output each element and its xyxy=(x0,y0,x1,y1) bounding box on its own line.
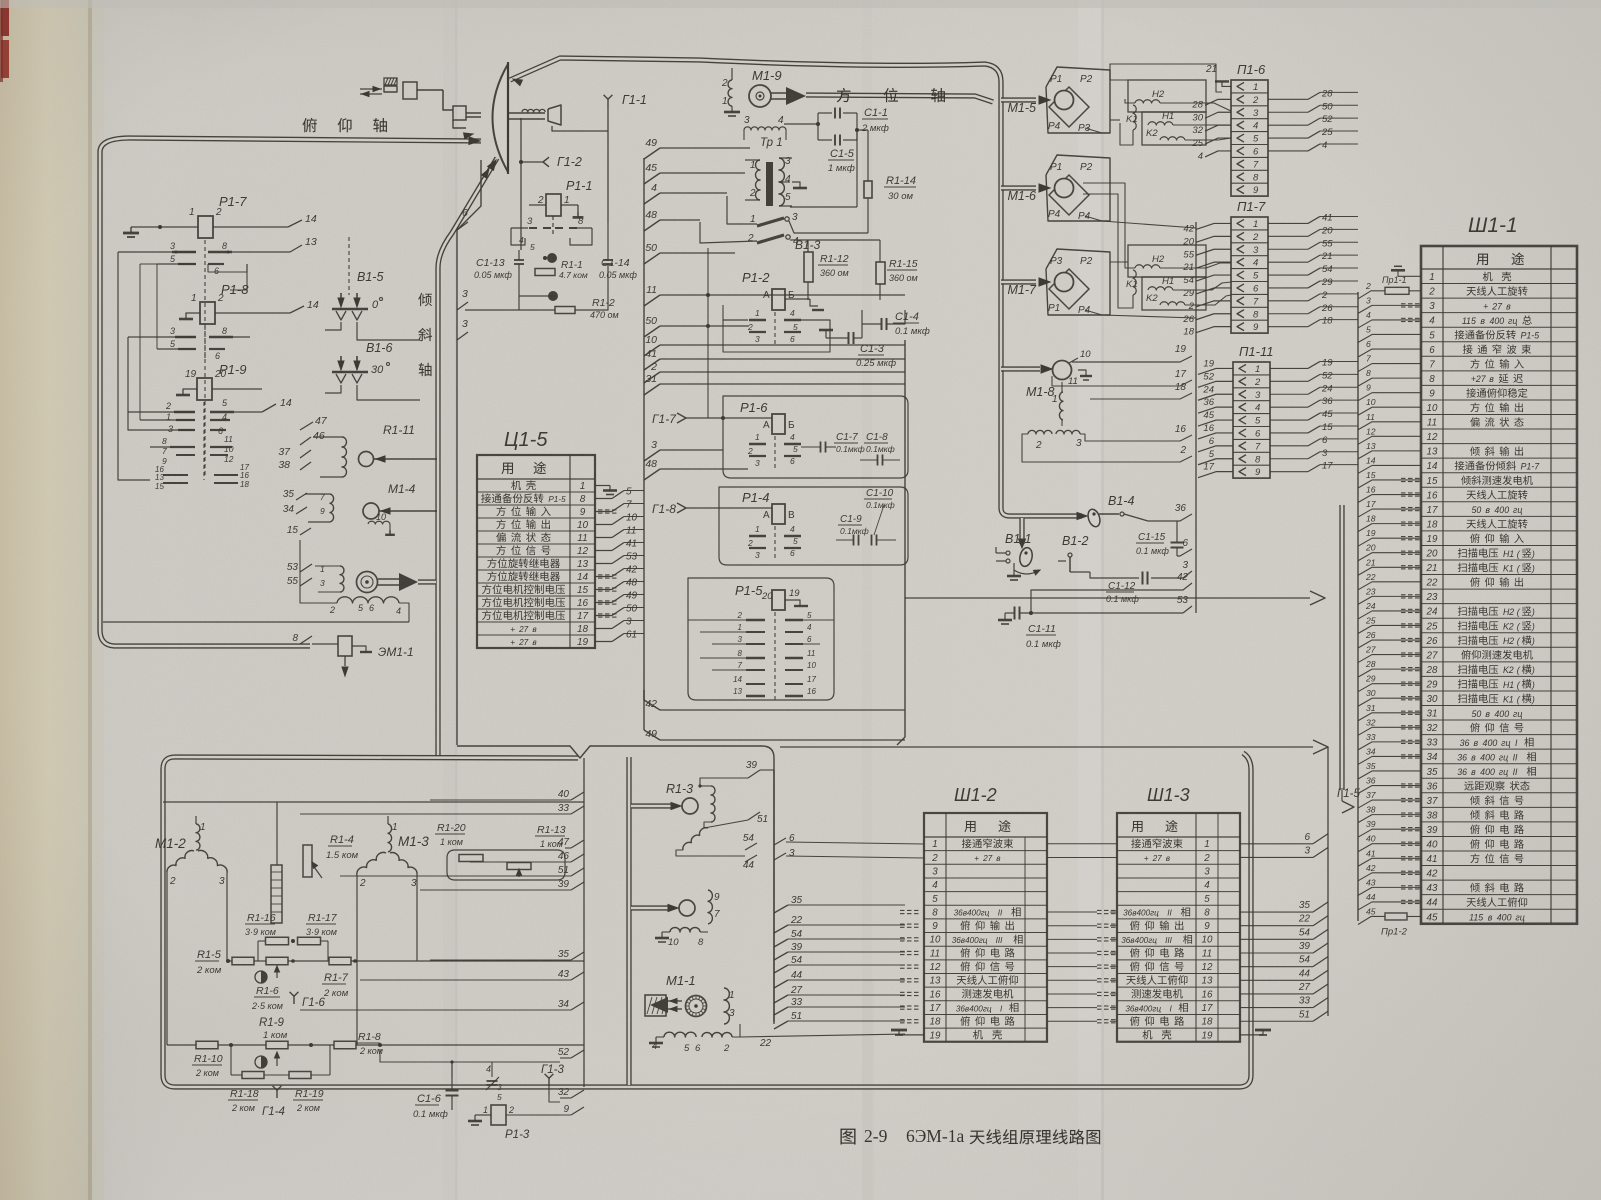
stub 41 xyxy=(644,359,660,370)
P1-8 contact rows xyxy=(204,326,206,360)
M1-1 bottom coils xyxy=(664,1032,696,1037)
ladder row 29 xyxy=(1358,684,1421,692)
ladder row 9 xyxy=(1358,393,1421,401)
ground top-left xyxy=(130,227,132,233)
P1-9 contact bank xyxy=(203,402,205,480)
gearbox shaft blocks xyxy=(384,86,397,92)
top boundary double line from dish to azimuth column xyxy=(510,58,1082,516)
wires top bottom-left xyxy=(163,801,584,803)
ladder row 13 xyxy=(1358,451,1421,459)
nested wire rectangles left block xyxy=(118,251,140,253)
right bus x774 xyxy=(773,770,775,1024)
ladder row 12 xyxy=(1358,436,1421,444)
box around P1-6 group xyxy=(723,396,908,478)
ground at Tp1 secondary xyxy=(792,182,800,188)
drive shaft double line down xyxy=(626,757,631,1085)
P1-2 contacts xyxy=(749,319,766,321)
ladder row 38 xyxy=(1358,815,1421,823)
ladder row 31 xyxy=(1358,713,1421,721)
wire from P1-7 row2 to P1-8 xyxy=(230,264,247,290)
waveguide to feed horn xyxy=(509,112,545,114)
lower slip ring to tilt axis xyxy=(300,564,312,572)
elevation axis arrowheads into dish xyxy=(469,137,480,145)
ladder row 40 xyxy=(1358,844,1421,852)
B1-2 row stubs 3 42 xyxy=(1160,561,1192,568)
P1-6 contacts xyxy=(749,443,766,445)
ladder row 42 xyxy=(1358,873,1421,881)
wires from selsyn area to П1-7 left xyxy=(1110,227,1196,229)
ladder row 37 xyxy=(1358,800,1421,808)
tilt axis arrowheads xyxy=(488,160,496,170)
slip ring 2 xyxy=(631,905,668,910)
C1-11 ground xyxy=(1004,613,1006,620)
wires lower left linking xyxy=(380,1049,560,1062)
stub 51 xyxy=(340,875,571,877)
double arrow symbol xyxy=(360,88,382,90)
parabolic dish reflector xyxy=(493,64,509,172)
stub ladder to tables xyxy=(774,905,788,913)
label 倾斜轴 vertical xyxy=(418,293,432,306)
azimuth arrow to M1-6 xyxy=(1001,185,1036,190)
motor-generator circle xyxy=(357,572,378,593)
ladder row 14 xyxy=(1358,465,1421,473)
stub 32 xyxy=(560,1097,571,1099)
ladder row 6 xyxy=(1358,349,1421,357)
antenna Г1-1 xyxy=(607,99,609,107)
stub 2 xyxy=(644,372,660,383)
Ш1-3 right stubs xyxy=(1240,843,1313,845)
stub 48 xyxy=(644,220,660,231)
P1-7 contact row 1 xyxy=(140,251,196,253)
P1-9 ground xyxy=(183,389,197,395)
center bus vertical xyxy=(643,158,645,700)
R1-3 coil xyxy=(711,786,715,822)
П1-11 left stubs xyxy=(1198,368,1233,374)
P1-9 lower contacts a xyxy=(170,446,195,448)
stub 3 a xyxy=(457,302,468,310)
stub 43 xyxy=(360,979,571,981)
stub 33b xyxy=(300,813,571,815)
ladder row 8 xyxy=(1358,378,1421,386)
ladder row 17 xyxy=(1358,509,1421,517)
antenna Г1-2 xyxy=(543,157,549,167)
ground at P1-1 xyxy=(577,205,579,212)
coil 9 7 xyxy=(708,890,712,924)
stub 11 xyxy=(644,295,660,306)
M1-8 stator coil xyxy=(1059,392,1063,420)
M1-8 star coils xyxy=(1028,430,1052,434)
stub 49 xyxy=(644,148,660,159)
arrow into B1-4 xyxy=(1077,513,1087,520)
wires P1-5 right xyxy=(803,619,834,621)
ladder row 4 xyxy=(1358,320,1421,328)
ladder row 25 xyxy=(1358,625,1421,633)
box around P1-4 group xyxy=(719,487,908,565)
B1-3 wires xyxy=(727,196,757,224)
stub 46b xyxy=(470,861,571,863)
Tp1 top winding xyxy=(744,127,786,130)
coil on waveguide xyxy=(522,109,545,112)
wires around R1-2 xyxy=(519,276,553,296)
П1-6 right stubs xyxy=(1268,98,1308,100)
ladder row 35 xyxy=(1358,771,1421,779)
azimuth arrow to M1-5 xyxy=(1001,97,1036,102)
wires M1-5 P3 down to П1-7 row1 xyxy=(1095,133,1196,228)
feed horn xyxy=(548,105,561,125)
P1-9 lower contacts b xyxy=(163,474,188,476)
stub 14 left of B1-5 row xyxy=(262,404,276,412)
П1-7 left stubs xyxy=(1196,223,1231,229)
wires coil group to П1-6 xyxy=(1160,103,1231,111)
long wire to merge bottom xyxy=(780,746,1313,748)
drive arrow triangle xyxy=(399,573,418,591)
ladder row 33 xyxy=(1358,742,1421,750)
label 方位轴 xyxy=(837,88,851,102)
Ш1-3 right collector bus xyxy=(1327,747,1329,1016)
relay P1-1 contacts xyxy=(552,216,554,236)
ladder row 43 xyxy=(1358,887,1421,895)
red page edge marks xyxy=(1,0,9,36)
diagonal coil xyxy=(683,828,708,850)
antenna Г1-4 xyxy=(276,1090,278,1098)
ladder row 36 xyxy=(1358,786,1421,794)
P1-5 contact bank xyxy=(746,619,765,621)
P1-5 ground xyxy=(785,600,800,606)
central box bottom xyxy=(457,746,762,758)
Ш1-2 left tpmarks xyxy=(900,909,905,911)
ground near C1-3 xyxy=(825,330,827,338)
wire 35 27 stubs xyxy=(745,892,757,899)
selsyn M1-5 housing xyxy=(1046,67,1110,133)
wires P1-5 left xyxy=(688,619,746,621)
M1-1 coil 1 3 xyxy=(724,988,729,1024)
ladder row 27 xyxy=(1358,655,1421,663)
stub 10 xyxy=(644,345,660,356)
stub 3c xyxy=(644,450,660,461)
ladder row 19 xyxy=(1358,538,1421,546)
coil group H K for П1-6 xyxy=(1128,80,1206,112)
stub 14 right of P1-7 xyxy=(288,220,302,227)
table Ш1-2 xyxy=(924,813,1047,1042)
inner border line left of center xyxy=(457,160,481,745)
fold crease left of center xyxy=(443,0,457,1200)
ladder row 41 xyxy=(1358,858,1421,866)
stub 50 xyxy=(644,253,660,264)
stub 9b xyxy=(520,1114,571,1116)
M1-8 wires to bus xyxy=(1061,382,1063,392)
Ш1-1 ladder bus xyxy=(1357,292,1359,921)
ladder row 10 xyxy=(1358,407,1421,415)
П1-11 right stubs xyxy=(1270,367,1308,369)
stub 39b xyxy=(420,889,571,891)
vertical line from waveguide xyxy=(520,118,522,162)
stub 35b xyxy=(430,959,571,961)
box around P1-5 bank xyxy=(688,578,834,700)
fold crease right of center xyxy=(1078,0,1102,1200)
bottom stubs 42 49 xyxy=(643,690,645,700)
stub 13 right of P1-7 xyxy=(290,245,302,252)
trimmer R1-6 xyxy=(255,971,267,983)
ground below Ш1-2 xyxy=(899,1030,924,1035)
left page edge strip xyxy=(0,0,92,1200)
B1-6 wires xyxy=(325,385,341,393)
stub 4 xyxy=(644,193,660,204)
resistors R1-18 R1-19 xyxy=(242,1072,264,1079)
ladder row 5 xyxy=(1358,334,1421,342)
top edge shadow xyxy=(0,0,1601,8)
box around P1-2 contacts xyxy=(723,305,830,352)
resistor R1-6 body xyxy=(266,957,288,965)
ladder row 21 xyxy=(1358,567,1421,575)
stub 48b xyxy=(644,469,660,480)
B1-4 row stubs 36 6 xyxy=(1177,514,1192,521)
coil group H K for П1-7 xyxy=(1128,245,1206,277)
ladder row 20 xyxy=(1358,553,1421,561)
Tp1 primary xyxy=(756,160,761,200)
wire 22 bottom xyxy=(740,1030,752,1038)
stub 50b xyxy=(644,326,660,337)
ladder row 28 xyxy=(1358,669,1421,677)
right double line down to Г1-5 xyxy=(1339,505,1344,790)
B1-5 wires xyxy=(325,322,341,330)
Ц1-5 right stubs xyxy=(595,498,612,500)
relay P1-3 xyxy=(491,1105,506,1125)
coil with ground pin 10 xyxy=(368,521,390,524)
azimuth arrow to M1-8 xyxy=(1001,366,1040,371)
tilt axis double line 倾斜轴 xyxy=(438,158,497,757)
fuse Пр1-2 row45 xyxy=(1358,916,1385,924)
selsyn M1-5 circle xyxy=(1055,91,1074,110)
contact box wires P1-1 xyxy=(511,227,528,229)
Tp1 secondary xyxy=(779,158,784,206)
Ш1-3 row1-2 links xyxy=(1047,843,1117,845)
hatched anchor block xyxy=(384,78,397,85)
fold crease bottom center xyxy=(862,0,872,1200)
ground Ш1-1 row1 xyxy=(1398,270,1421,276)
long wire to merge top xyxy=(905,597,1310,599)
selsyn M1-6 rotor diamond xyxy=(1049,175,1089,215)
P1-8 ground xyxy=(186,313,200,319)
bus left of П boxes xyxy=(1195,222,1197,613)
trimmer row C xyxy=(255,1056,267,1068)
label 俯仰轴 xyxy=(302,118,316,132)
stub 6 on inner border xyxy=(457,222,468,230)
selsyn wires M1-6 xyxy=(1085,216,1196,228)
M1-9 drive arrow xyxy=(786,87,806,105)
coil above M1-9 xyxy=(728,80,732,106)
stub 40 xyxy=(430,799,571,801)
ladder row 18 xyxy=(1358,524,1421,532)
stub 52 xyxy=(560,1057,571,1059)
Ш1-3 left tpmarks xyxy=(1097,909,1102,911)
ladder row 7 xyxy=(1358,364,1421,372)
inner separator vertical xyxy=(583,758,585,1087)
wire 42 from B1 group xyxy=(1031,590,1090,613)
stub 14 right of P1-8 xyxy=(290,306,304,313)
Tp1 core xyxy=(766,162,773,206)
B1-1 ground xyxy=(1007,563,1009,574)
wires coil group to П1-7 xyxy=(1160,263,1231,268)
table Ц1-5 xyxy=(477,455,595,648)
table Ш1-1 xyxy=(1421,246,1577,924)
ladder row 15 xyxy=(1358,480,1421,488)
scan grain overlay xyxy=(0,0,1,1)
trim arrow R1-1 xyxy=(547,253,557,263)
selsyn M1-5 rotor diamond xyxy=(1049,87,1089,127)
M1-1 rotor circle xyxy=(686,996,707,1017)
M1-4 coils xyxy=(330,494,334,522)
ground below Ш1-3 xyxy=(1240,1030,1263,1035)
azimuth arrow to M1-7 xyxy=(1001,279,1036,284)
stub 31 xyxy=(644,384,660,395)
П1-6 left stubs xyxy=(1205,99,1231,105)
ladder row 11 xyxy=(1358,422,1421,430)
ladder row 44 xyxy=(1358,902,1421,910)
azimuth axis double line from M1-9 xyxy=(806,95,993,102)
merge arrow bottom xyxy=(1313,740,1328,754)
antenna Г1-3 xyxy=(548,1078,550,1086)
selsyn M1-6 circle xyxy=(1055,179,1074,198)
ladder row 3 xyxy=(1358,305,1421,313)
П1-7 right stubs xyxy=(1268,222,1308,224)
ladder row 32 xyxy=(1358,727,1421,735)
switch B1-3 xyxy=(757,218,784,226)
stub 47b xyxy=(565,847,571,849)
ladder row 24 xyxy=(1358,611,1421,619)
ladder row 26 xyxy=(1358,640,1421,648)
wires 6 3 to Ш1-3 xyxy=(774,838,786,845)
arrowhead into dish top xyxy=(513,79,522,86)
electromagnet EM1-1 xyxy=(300,636,312,644)
selsyn M1-7 housing xyxy=(1046,249,1110,315)
stub 45 xyxy=(644,173,660,184)
coil 10 8 xyxy=(670,928,700,933)
feed line down from horn xyxy=(552,126,608,131)
ladder row 30 xyxy=(1358,698,1421,706)
selsyn M1-6 housing xyxy=(1046,155,1110,221)
B1-1 terminals xyxy=(1006,551,1010,555)
P1-4 contacts xyxy=(749,535,766,537)
elevation axis double line 俯仰轴 xyxy=(100,138,481,646)
bottom enclosure border xyxy=(175,757,578,758)
wire down from feed xyxy=(607,131,609,222)
caption 图 2-9 6ЭМ-1a 天线组原理线路图 xyxy=(841,1129,856,1145)
ladder row 16 xyxy=(1358,495,1421,503)
П1-6 ground row1 xyxy=(1222,81,1231,86)
row wire A xyxy=(227,960,232,962)
selsyn wires M1-5 xyxy=(1110,79,1128,81)
P1-7 contact row 2 xyxy=(157,263,196,265)
ground below coil xyxy=(731,106,733,112)
ladder row 34 xyxy=(1358,756,1421,764)
ladder row 23 xyxy=(1358,596,1421,604)
table Ш1-3 xyxy=(1117,813,1240,1042)
stub 34b xyxy=(300,1009,571,1011)
selsyn wires M1-7 xyxy=(1110,261,1128,263)
wire 21 to selsyn area xyxy=(1110,64,1222,92)
ladder row 39 xyxy=(1358,829,1421,837)
central box right edge xyxy=(897,340,905,745)
ladder row 22 xyxy=(1358,582,1421,590)
selsyn M1-7 circle xyxy=(1055,273,1074,292)
stub 3 b xyxy=(457,332,468,340)
selsyn M1-7 rotor diamond xyxy=(1049,269,1089,309)
coil row above EM1-1 xyxy=(337,597,399,603)
Ц1-5 ground row1 xyxy=(595,485,610,487)
left column lower stubs 47 46 xyxy=(300,422,313,430)
wire 18 between xyxy=(1090,393,1192,399)
antenna Г1-6 xyxy=(293,996,295,1004)
merge arrow top xyxy=(1310,591,1325,605)
